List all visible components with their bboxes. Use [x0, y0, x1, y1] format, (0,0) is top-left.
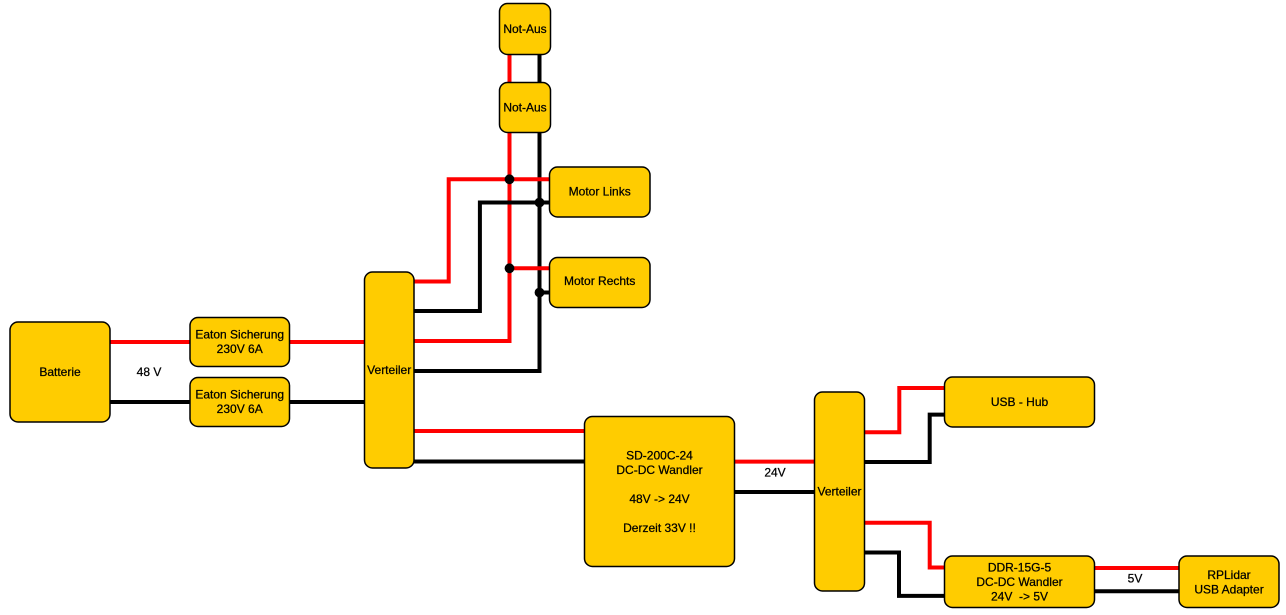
- svg-text:Motor Links: Motor Links: [569, 185, 631, 199]
- block Eaton Sicherung bottom: [190, 378, 290, 427]
- block Eaton Sicherung top: [190, 318, 290, 367]
- block DDR-15G-5 DC-DC Wandler: [945, 556, 1095, 608]
- svg-text:24V -> 5V: 24V -> 5V: [991, 589, 1048, 603]
- junction dot black net at Motor Rechts feed: [535, 288, 545, 298]
- wire black Verteiler right to DDR-15G-5 input: [862, 553, 947, 596]
- block Not-Aus 2: [500, 83, 551, 133]
- svg-text:24V: 24V: [764, 466, 785, 480]
- wire red Eaton Sicherung top to Verteiler left (+48V): [287, 340, 367, 344]
- wire black branch to Motor Rechts: [540, 291, 552, 295]
- wire red Verteiler left to Not-Aus chain: [412, 131, 510, 341]
- wire black Eaton Sicherung bottom to Verteiler left (GND): [287, 400, 367, 404]
- wire black Verteiler left to Motor Links: [412, 203, 551, 312]
- wire red Not-Aus 1 to Not-Aus 2: [508, 52, 512, 84]
- wire black Verteiler left to SD-200C-24 input: [412, 460, 587, 464]
- wire red branch to Motor Rechts: [510, 266, 552, 270]
- svg-text:RPLidar: RPLidar: [1207, 568, 1250, 582]
- wire black Not-Aus 1 to Not-Aus 2: [538, 52, 542, 84]
- wire red Verteiler left to SD-200C-24 input: [412, 429, 587, 433]
- svg-text:230V 6A: 230V 6A: [217, 402, 263, 416]
- svg-text:230V 6A: 230V 6A: [217, 342, 263, 356]
- svg-text:48 V: 48 V: [137, 365, 162, 379]
- svg-text:48V -> 24V: 48V -> 24V: [629, 492, 689, 506]
- block SD-200C-24 DC-DC Wandler: [585, 417, 735, 567]
- svg-text:SD-200C-24: SD-200C-24: [626, 449, 693, 463]
- junction dot black net at Motor Links feed: [535, 198, 545, 208]
- svg-text:DDR-15G-5: DDR-15G-5: [988, 560, 1052, 574]
- block Motor Links: [550, 167, 651, 217]
- wire black DDR-15G-5 to RPLidar: [1092, 589, 1181, 593]
- svg-text:5V: 5V: [1128, 572, 1143, 586]
- wire black Batterie to Eaton Sicherung bottom (GND): [108, 400, 192, 404]
- block Not-Aus 1: [500, 4, 551, 55]
- svg-text:Eaton Sicherung: Eaton Sicherung: [195, 388, 284, 402]
- junction dot red net at Motor Rechts feed: [505, 263, 515, 273]
- svg-text:Not-Aus: Not-Aus: [503, 22, 546, 36]
- block Batterie: [10, 322, 110, 422]
- svg-text:Derzeit 33V !!: Derzeit 33V !!: [623, 521, 696, 535]
- wire black SD-200C-24 output to Verteiler right: [732, 490, 817, 494]
- block Motor Rechts: [550, 258, 651, 308]
- junction dot red net at Motor Links feed: [505, 174, 515, 184]
- wire red Verteiler right to USB-Hub: [862, 388, 947, 432]
- svg-text:Verteiler: Verteiler: [817, 485, 861, 499]
- block Verteiler left: [365, 272, 415, 468]
- svg-text:Eaton Sicherung: Eaton Sicherung: [195, 328, 284, 342]
- block USB - Hub: [945, 377, 1095, 427]
- wire red Batterie to Eaton Sicherung top (+48V): [108, 340, 192, 344]
- block Verteiler right: [815, 392, 865, 591]
- svg-text:Batterie: Batterie: [39, 365, 81, 379]
- wire red Verteiler right to DDR-15G-5 input: [862, 523, 947, 568]
- wire red SD-200C-24 output to Verteiler right (+24V): [732, 460, 817, 464]
- svg-text:DC-DC Wandler: DC-DC Wandler: [616, 463, 702, 477]
- svg-text:Motor Rechts: Motor Rechts: [564, 274, 635, 288]
- block RPLidar USB Adapter: [1179, 556, 1279, 608]
- svg-text:USB - Hub: USB - Hub: [991, 395, 1049, 409]
- svg-text:Verteiler: Verteiler: [367, 363, 411, 377]
- svg-text:Not-Aus: Not-Aus: [503, 101, 546, 115]
- wire black Verteiler left to Not-Aus chain: [412, 131, 540, 371]
- wire red DDR-15G-5 to RPLidar (+5V): [1092, 566, 1181, 570]
- svg-text:USB Adapter: USB Adapter: [1194, 583, 1263, 597]
- wire black Verteiler right to USB-Hub: [862, 415, 947, 462]
- svg-text:DC-DC Wandler: DC-DC Wandler: [976, 575, 1062, 589]
- wire red Verteiler left to Motor Links: [412, 179, 551, 281]
